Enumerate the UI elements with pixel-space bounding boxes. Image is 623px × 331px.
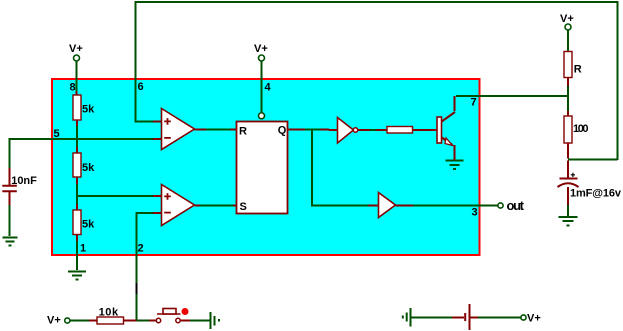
svg-text:100: 100 <box>573 123 589 135</box>
svg-text:S: S <box>240 201 247 213</box>
svg-text:out: out <box>507 198 525 213</box>
svg-text:4: 4 <box>265 82 272 94</box>
svg-text:2: 2 <box>138 243 144 255</box>
svg-text:V+: V+ <box>69 43 83 55</box>
svg-text:3: 3 <box>472 207 478 219</box>
svg-text:7: 7 <box>471 97 477 109</box>
svg-text:5k: 5k <box>82 219 95 231</box>
svg-text:10k: 10k <box>99 307 119 319</box>
svg-text:V+: V+ <box>527 313 541 325</box>
svg-text:R: R <box>239 126 247 138</box>
svg-text:1mF@16v: 1mF@16v <box>570 188 622 200</box>
svg-text:V+: V+ <box>47 315 61 327</box>
svg-text:10nF: 10nF <box>11 175 37 187</box>
svg-text:1: 1 <box>80 243 86 255</box>
svg-text:V+: V+ <box>254 43 268 55</box>
svg-text:R: R <box>574 63 582 75</box>
svg-text:6: 6 <box>138 81 144 93</box>
svg-text:Q: Q <box>278 125 287 137</box>
svg-text:V+: V+ <box>560 13 574 25</box>
svg-text:5: 5 <box>54 128 60 140</box>
svg-text:5k: 5k <box>82 104 95 116</box>
svg-text:5k: 5k <box>82 162 95 174</box>
svg-text:8: 8 <box>70 82 76 94</box>
